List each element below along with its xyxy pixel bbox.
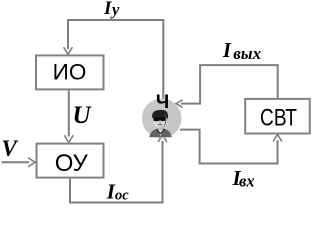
svg-text:U: U — [73, 102, 93, 129]
svg-text:V: V — [2, 136, 19, 161]
svg-text:y: y — [110, 0, 120, 19]
svg-text:ОУ: ОУ — [55, 150, 89, 177]
svg-text:ИО: ИО — [53, 60, 87, 85]
svg-text:ос: ос — [115, 188, 129, 204]
svg-text:I: I — [103, 0, 112, 19]
svg-text:вых: вых — [233, 44, 261, 63]
svg-text:вх: вх — [239, 171, 255, 190]
svg-text:Ч: Ч — [156, 92, 169, 113]
svg-text:I: I — [222, 38, 232, 62]
svg-text:СВТ: СВТ — [260, 103, 297, 131]
